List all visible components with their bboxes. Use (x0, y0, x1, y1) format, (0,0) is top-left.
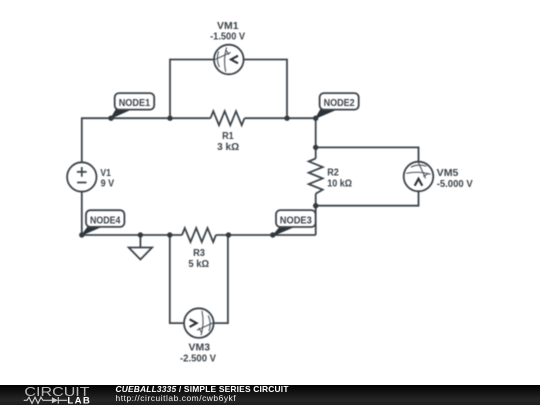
label R3 value 5 kΩ (188, 258, 209, 270)
junction VM1 left (167, 116, 172, 121)
ground (129, 248, 152, 260)
svg-text:9 V: 9 V (101, 178, 115, 190)
wire VM1 right branch (244, 60, 287, 119)
label R2 value 10 kΩ (327, 178, 352, 190)
svg-text:5 kΩ: 5 kΩ (188, 258, 209, 270)
label V1 (100, 167, 111, 179)
junction R2 top (313, 145, 318, 150)
junction VM3 left (167, 232, 172, 237)
wire VM5 bottom branch (316, 191, 419, 205)
wire VM1 left branch (170, 60, 214, 119)
svg-text:-2.500 V: -2.500 V (180, 352, 216, 364)
label VM3 (189, 342, 211, 354)
junction NODE3 anchor (270, 232, 275, 237)
svg-text:R2: R2 (327, 166, 339, 178)
wire VM3 right branch (214, 235, 228, 323)
node NODE1 flag (111, 93, 154, 118)
svg-text:LAB: LAB (67, 395, 91, 405)
junction VM3 right (226, 232, 231, 237)
voltmeter VM3 (184, 308, 214, 338)
label VM1 (217, 20, 239, 32)
wire R2 bottom to bottom rail (315, 206, 317, 235)
label VM5 (437, 167, 459, 179)
wire top-right: R1 right to NODE2 corner (245, 117, 316, 119)
label VM3 value -2.500 V (180, 352, 216, 364)
label V1 value 9 V (101, 178, 115, 190)
node NODE4 flag (82, 210, 125, 235)
svg-text:3 kΩ: 3 kΩ (217, 141, 239, 153)
junction ground (138, 232, 143, 237)
junction NODE2 (313, 116, 318, 121)
svg-text:NODE2: NODE2 (324, 98, 355, 109)
resistor R2 (309, 159, 323, 194)
resistor R1 (211, 111, 245, 125)
voltmeter VM5 (404, 162, 434, 192)
svg-text:NODE1: NODE1 (119, 98, 151, 109)
junction NODE1 anchor (108, 116, 113, 121)
CircuitLab logo (22, 385, 122, 405)
wire NODE2 to R2 top (315, 118, 317, 147)
junction R2 bottom (313, 203, 318, 208)
label R3 (193, 247, 205, 259)
footer bar (0, 385, 540, 405)
label R1 (222, 130, 234, 142)
wire ground stub (139, 235, 141, 248)
junction NODE4 anchor (79, 232, 84, 237)
voltage source V1 (67, 162, 96, 191)
wire top-left: V1 top to R1 left (82, 118, 211, 162)
node NODE2 flag (316, 93, 359, 118)
svg-text:-5.000 V: -5.000 V (437, 178, 473, 190)
wire bottom-left: V1 bottom to R3 left (82, 192, 182, 235)
svg-text:NODE4: NODE4 (90, 216, 121, 227)
node NODE3 flag (273, 210, 316, 236)
wire VM5 top branch (316, 147, 419, 161)
label VM1 value -1.500 V (210, 30, 245, 42)
resistor R3 (182, 228, 216, 242)
svg-text:NODE3: NODE3 (280, 215, 312, 226)
voltmeter VM1 (214, 45, 244, 75)
junction VM1 right (284, 116, 289, 121)
wire VM3 left branch (170, 235, 184, 323)
label R1 value 3 kΩ (217, 141, 239, 153)
wire R2 bottom lead (315, 194, 317, 206)
label R2 (327, 166, 339, 178)
svg-text:-1.500 V: -1.500 V (210, 30, 245, 42)
wire bottom-right: R3 right to NODE3 corner (216, 234, 316, 236)
svg-text:10 kΩ: 10 kΩ (327, 178, 352, 190)
wire R2 top lead (315, 147, 317, 158)
label VM5 value -5.000 V (437, 178, 473, 190)
